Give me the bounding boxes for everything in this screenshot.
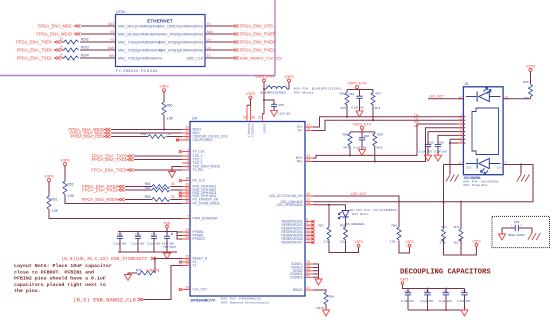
no-connect X RXD_2 [179,192,182,195]
power V3P5 [526,64,535,84]
svg-text:MAC_MDIO(IO4MRGB4V0): MAC_MDIO(IO4MRGB4V0) [118,32,160,36]
svg-text:MAC_CLK: MAC_CLK [187,56,204,60]
svg-text:IOGND2: IOGND2 [290,276,302,280]
svg-text:L4: L4 [267,83,271,87]
svg-text:0.1uF 16V: 0.1uF 16V [148,241,161,245]
capacitor C58 [271,103,291,116]
ground TXD_3 [169,172,176,178]
svg-text:FPGA_ENA_TXEN: FPGA_ENA_TXEN [16,40,52,45]
svg-text:49.9: 49.9 [340,106,346,110]
node FPGA_ENA_RXD1 [233,48,277,53]
no-connect X CLK_OUT [179,288,182,291]
wire R51 to PWR_DOWN [49,210,182,219]
node TD- label [414,117,419,121]
svg-text:T4: T4 [207,54,211,58]
svg-text:R59: R59 [377,132,383,136]
svg-text:V3P3: V3P3 [44,175,53,179]
node RD+ label [414,120,420,124]
svg-text:33: 33 [171,182,175,186]
ground C69 [434,155,441,161]
resistor R57 led [318,223,331,243]
svg-text:FJ-2B8500-FGG484: FJ-2B8500-FGG484 [116,69,158,73]
svg-text:V3P3: V3P3 [60,159,69,163]
svg-text:28: 28 [307,201,311,205]
mfr text D5 [350,208,397,216]
svg-text:22: 22 [258,116,262,120]
wire R70 to gnd [128,273,137,275]
wire RD+ [313,124,465,158]
power V3P3 R66 [405,240,413,247]
svg-text:R51: R51 [52,198,58,202]
wire TXD1 [134,159,182,161]
svg-text:0.1uF 16V: 0.1uF 16V [278,111,291,115]
svg-text:R57: R57 [318,223,324,227]
pin AA4 [207,30,214,34]
svg-text:V3P3: V3P3 [246,92,255,96]
svg-text:ETHERNET: ETHERNET [147,18,173,23]
svg-text:V3P3: V3P3 [159,85,168,89]
node FPGA_ENA_TXD0 [92,154,134,159]
wire pin12 chain [443,165,445,229]
wire decoupling top rail [403,284,465,288]
svg-text:C54: C54 [405,289,411,293]
pin U4 [207,46,211,50]
no-connect X X2 [179,261,182,264]
node ENB_SYSRESET# [62,256,157,262]
svg-text:7: 7 [187,215,189,219]
node FPGA_ENA_RXER [233,32,276,37]
part text DP83848CVV [191,298,216,303]
svg-text:R203: R203 [81,46,89,50]
svg-text:C58: C58 [278,103,284,107]
LED top in J8 [466,88,501,102]
svg-text:2.2K: 2.2K [390,239,396,243]
power V3P3 decoupling [400,277,408,284]
junction reset-R70 [154,258,156,260]
page divider vertical [274,0,276,76]
svg-text:MAC_TXEN(IO4MR5M4V0): MAC_TXEN(IO4MR5M4V0) [118,40,160,44]
pin V3 [110,30,114,34]
svg-text:11: 11 [459,95,462,99]
svg-text:110: 110 [454,240,459,244]
wire RJ45 pin7 pin8 [449,139,465,174]
mfr text L4 [294,87,342,95]
wire RJ45 pin5 tap [428,132,465,145]
resistor R71 [440,225,448,244]
title DECOUPLING CAPACITORS [400,269,491,277]
svg-text:LED_SPEED/AN1: LED_SPEED/AN1 [277,203,303,207]
svg-text:IOVDD33_2: IOVDD33_2 [251,124,255,139]
capacitor C55 [421,289,434,311]
right pin numbers U9 [307,123,311,290]
power V3P3 at L4 [284,75,293,89]
node FPGA_ENA_MDIO [36,32,80,37]
RJ45 inner jack outline [472,108,499,155]
svg-text:FPGA_ENA_RXD0: FPGA_ENA_RXD0 [240,40,277,45]
svg-text:4.99K_NL: 4.99K_NL [146,269,160,273]
wire MDC to block [81,25,116,27]
svg-text:680pF 1000V: 680pF 1000V [508,233,525,237]
junction R57 tap [328,204,330,206]
svg-text:110: 110 [340,239,345,243]
left pin stubs U9 [182,130,190,290]
wire TD+ [313,117,465,127]
top pin numbers U9 [243,116,262,120]
svg-text:C9: C9 [497,166,501,170]
wire V3P3 to R50 [163,92,165,102]
no-connect X RX_CLK [179,179,182,182]
svg-text:V3P3: V3P3 [284,75,293,79]
wire RXD0 out [205,41,232,43]
PHY U9 DP83848CVV [190,117,305,297]
svg-text:(B,5) ENB_NANDZ_CLK: (B,5) ENB_NANDZ_CLK [73,296,136,303]
wire AGND merge [313,264,319,279]
pin AA3 [108,22,115,26]
ground C59 left [499,234,506,240]
resistor R58 [342,132,352,149]
svg-text:FPGA_ENA_MDIO: FPGA_ENA_MDIO [36,32,72,37]
svg-text:C66: C66 [364,134,370,138]
svg-text:33: 33 [167,132,171,136]
svg-text:TX_EN: TX_EN [193,168,204,172]
node FPGA_ENA_TXEN [16,40,60,45]
wire ENB_NANDZ_CLK to X1 [144,266,182,300]
svg-text:R66: R66 [392,223,398,227]
capacitor C57 [458,289,471,311]
capacitor C54 [401,289,414,311]
svg-text:the pins.: the pins. [14,288,41,294]
svg-text:0.1uF 16V: 0.1uF 16V [132,241,145,245]
wire rail to chip pins [167,232,182,240]
resistor R66 [390,223,402,243]
resistor R202 [59,38,88,45]
resistor R56 [339,91,349,110]
svg-text:C57: C57 [461,289,467,293]
RJ45 pin numbers 1-8 [460,113,462,144]
svg-text:FPGA_ENA_RXER: FPGA_ENA_RXER [82,197,118,202]
svg-text:R71: R71 [442,225,448,229]
inductor L4 [261,83,290,94]
svg-text:TX_CLK: TX_CLK [193,150,206,154]
wire PFB bottom rail [118,251,177,253]
wire TXD0 [61,49,116,51]
node LED_ACT label [351,192,366,196]
svg-text:R50: R50 [167,104,173,108]
capacitor C52 [132,232,145,253]
mfr text [221,297,269,305]
ground C58 [271,110,278,116]
J8 part text [464,176,500,187]
pin 9 wire loop [461,161,533,202]
wire RXER left [125,199,152,201]
svg-text:U4: U4 [207,46,211,50]
svg-text:16: 16 [307,127,311,131]
wire R52 to RX_DV [65,195,182,204]
wire RXD1 right [171,189,183,191]
RJ45 pin stubs [458,99,509,165]
svg-text:1: 1 [187,148,189,152]
svg-text:close to PFBOUT. PFBIN1 and: close to PFBOUT. PFBIN1 and [14,269,94,275]
node FPGA_ENA_RXD1 [82,188,124,193]
pin 12 wire [444,161,464,165]
FPGA MAC block U7 [116,15,206,67]
pin W5 [109,54,114,58]
svg-text:R58: R58 [340,223,346,227]
svg-text:MXI: National Semiconductor: MXI: National Semiconductor [221,300,269,304]
wire R57 to TD- [372,105,374,121]
node RD- label [414,124,419,128]
svg-text:33: 33 [171,195,175,199]
wire CRS out [205,25,232,27]
svg-text:C59: C59 [514,220,520,224]
capacitor C69 [434,141,447,156]
svg-text:R58: R58 [342,132,348,136]
svg-text:0.1uF 16V: 0.1uF 16V [401,299,414,303]
svg-text:AA3: AA3 [108,22,115,26]
svg-text:26: 26 [307,192,311,196]
wire RXD1 out [205,49,232,51]
resistor R63 [145,195,175,201]
svg-text:C64: C64 [348,92,354,96]
svg-text:V4: V4 [207,38,211,42]
svg-text:C56: C56 [443,289,449,293]
power V3P3_ETH termination A [348,81,367,88]
wire R59 to RD- [374,146,376,163]
power V3P3 pullup MDIO [159,85,168,92]
svg-text:ENB_NANDZ_CLK (15): ENB_NANDZ_CLK (15) [240,56,283,61]
wire R66 to V3P3 [399,241,410,254]
refdes U7CK [116,10,126,14]
pin 10 wire to R68 [503,95,530,99]
svg-text:DP83848CVV: DP83848CVV [191,298,216,303]
chassis ground pin9 [517,175,530,182]
svg-text:1.5K: 1.5K [167,117,174,121]
wire AVDD33 feed [263,89,265,115]
wire P5B to rail [166,228,168,232]
resistor R51 [47,196,59,213]
svg-text:22: 22 [59,54,63,58]
no-connect X TX_CLK [179,150,182,153]
resistor R57 [371,91,381,110]
svg-text:0.1uF 16V: 0.1uF 16V [439,299,452,303]
svg-text:21: 21 [307,286,311,290]
svg-text:22: 22 [59,46,63,50]
svg-text:RESERVED07: RESERVED07 [281,241,302,245]
svg-text:LED_ACT: LED_ACT [351,192,366,196]
wire V3P3 to R52 [64,166,66,181]
svg-text:FPGA_ENA_TXEN: FPGA_ENA_TXEN [91,168,127,173]
svg-text:V3P5: V3P5 [526,64,535,68]
svg-text:R70: R70 [136,269,142,273]
svg-text:R68: R68 [523,80,529,84]
svg-text:FPGA_ENA_TXD1: FPGA_ENA_TXD1 [17,56,53,61]
svg-text:49.9: 49.9 [375,106,381,110]
capacitor C66 [354,134,370,150]
svg-text:C51: C51 [117,233,123,237]
svg-text:39: 39 [185,200,189,204]
svg-text:V3P3_ETH: V3P3_ETH [353,122,372,126]
wire RXD0 right [171,186,183,188]
node FPGA_ENA_MDIO [68,127,110,132]
svg-text:FPGA_ENA_TXD1: FPGA_ENA_TXD1 [92,157,128,162]
svg-text:COL/PHYAD0: COL/PHYAD0 [193,138,213,142]
svg-text:DECOUPLING CAPACITORS: DECOUPLING CAPACITORS [400,269,491,277]
wire CRS left [111,136,148,138]
wire R50 to MDIO line [163,116,165,130]
svg-text:2.2K: 2.2K [440,240,446,244]
resistor R52 [63,181,75,198]
node FPGA_ENA_TXD1 [17,56,61,61]
svg-text:PFBOUT: PFBOUT [193,237,206,241]
junction R50-MDIO [163,129,165,131]
svg-text:C52: C52 [135,233,141,237]
resistor R59 [373,132,383,149]
svg-text:X1: X1 [193,264,197,268]
svg-text:R57: R57 [376,91,382,95]
wire TXD_3 to gnd [172,167,182,172]
svg-text:R56: R56 [339,91,345,95]
svg-text:V3P3: V3P3 [354,240,362,244]
svg-text:0.1uF 16V: 0.1uF 16V [434,149,447,153]
svg-text:TD-: TD- [297,129,302,133]
svg-text:0.1uF 16V: 0.1uF 16V [351,106,364,110]
resistor R70 [136,269,160,275]
pin Y3 [110,38,114,42]
ground PFB caps [164,253,171,259]
svg-text:PFBIN2 pins should have a 0.1u: PFBIN2 pins should have a 0.1uF [14,276,106,282]
svg-text:38: 38 [185,177,189,181]
power V3P3 pullup PWR_DOWN [44,175,53,182]
svg-text:RX_CLK: RX_CLK [193,179,206,183]
wire RD- [313,128,465,162]
node P5B supply for PFB caps [164,221,171,228]
svg-text:RD-: RD- [297,160,303,164]
power V3P3 pullup RX_DV [60,159,69,166]
svg-text:CLK_OUT: CLK_OUT [193,288,208,292]
svg-text:Y4: Y4 [207,22,211,26]
svg-text:0.1uF 16V: 0.1uF 16V [354,145,367,149]
right pin stubs U9 [305,127,313,290]
svg-text:FPGA_ENA_CRS: FPGA_ENA_CRS [70,134,104,139]
svg-text:C55: C55 [424,289,430,293]
svg-text:MXI: Murata: MXI: Murata [294,91,314,95]
wire PFB gnd drop [166,252,168,253]
RJ45 jack J8 [463,82,503,175]
wire V3P3_ETH drop [263,82,265,89]
capacitor C65 [419,141,434,156]
ground R54 [323,310,330,316]
svg-text:MXI: Rohm: MXI: Rohm [352,212,369,216]
node FPGA_ENA_CRS [70,134,110,139]
node FPGA_ENA_RXD0 [82,184,124,189]
label C10 in J8 [466,166,472,170]
svg-text:RBIAS: RBIAS [293,288,303,292]
node ENB_NANDZ_CLK [73,296,143,303]
no-connect X RXD_3 [179,195,182,198]
wire chassis tap [520,165,522,175]
junction C58 tap [263,99,265,101]
label C9 in J8 [497,166,501,170]
wire MDC [111,132,182,134]
pin Y4 [207,22,211,26]
svg-text:48: 48 [252,116,256,120]
svg-text:FPGA_ENA_MDC: FPGA_ENA_MDC [38,24,72,29]
svg-text:0.1uF 16V: 0.1uF 16V [419,149,432,153]
power V3P3 right rail [472,240,480,247]
svg-text:10: 10 [505,95,509,99]
junction chassis tap pin9 [520,164,522,166]
svg-text:FPGA_ENA_CRS: FPGA_ENA_CRS [240,24,274,29]
node FPGA_ENA_TXEN [91,168,133,173]
power V3P3 led rail [354,240,362,247]
svg-text:V3P3: V3P3 [472,240,480,244]
svg-text:LED_ACT/COL/AN_EN: LED_ACT/COL/AN_EN [269,194,303,198]
resistor R72 [454,225,464,244]
wire C58 branch [264,100,274,104]
node TD+ label [414,113,420,117]
svg-text:150: 150 [523,96,528,100]
power V3P3_ETH ferrite input [255,75,274,82]
svg-text:R204: R204 [81,54,89,58]
capacitor C51 [114,232,127,253]
wire RXD1 left [125,189,152,191]
wire decoupling bottom rail [408,309,465,311]
wire TXEN [61,41,116,43]
svg-text:R63: R63 [145,195,151,199]
svg-text:R54: R54 [329,294,335,298]
svg-text:PWR_DOWN/INT: PWR_DOWN/INT [193,217,218,221]
svg-text:IOVDD33_1: IOVDD33_1 [247,124,251,139]
resistor R68 [523,80,533,100]
svg-text:24: 24 [185,235,189,239]
resistor R61 [145,182,175,188]
junction R72 top [460,201,462,203]
svg-text:Y5V TANT: Y5V TANT [163,245,176,249]
pin 11 wire LED_ACT [428,95,463,99]
power V3P3 IOVDD feed [246,92,255,99]
node FPGA_ENA_RXER [82,197,125,202]
svg-text:MAC_RXD[1](IO4MRGB4V0): MAC_RXD[1](IO4MRGB4V0) [159,48,203,52]
svg-text:0.1uF 16V: 0.1uF 16V [421,299,434,303]
svg-text:R202: R202 [81,38,89,42]
capacitor C59 [502,220,532,237]
ground AGND [315,279,322,285]
wire MDIO to block [81,33,116,35]
pin 42 COL stub wire [176,139,182,142]
wire R58 to RD+ [349,146,351,157]
wire R54 to gnd [325,304,327,310]
svg-text:C65: C65 [428,141,434,145]
chassis box C59 [492,216,550,247]
svg-text:U7CK: U7CK [116,10,126,14]
wire RJ45 pin6 tap [438,135,465,144]
wire R70 riser [154,259,156,274]
wire to R57 [328,205,330,227]
layout note text [14,263,112,294]
svg-text:R62: R62 [145,186,151,190]
resistor R50 [162,102,174,121]
svg-text:42: 42 [185,136,189,140]
LED D5 [338,205,364,227]
pin V4 [207,38,211,42]
top pin stubs U9 [247,105,263,122]
svg-text:49.9: 49.9 [343,145,349,149]
ground decoupling [461,310,468,316]
svg-text:22: 22 [59,38,63,42]
wire CRS right [167,136,183,138]
svg-text:RX_DV/MII_MODE: RX_DV/MII_MODE [193,202,220,206]
svg-text:13: 13 [307,158,311,162]
